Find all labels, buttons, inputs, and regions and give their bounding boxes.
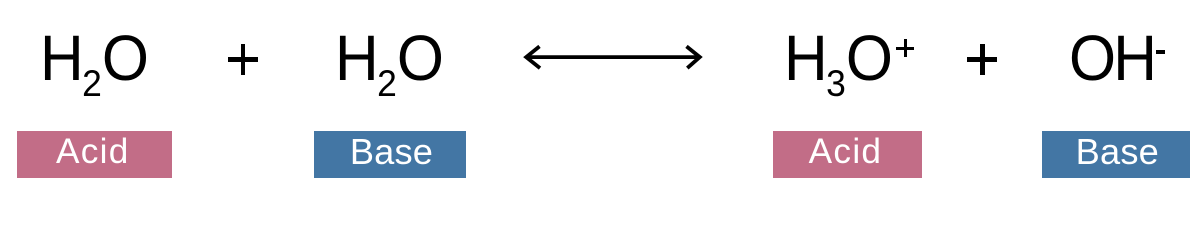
left arrowhead (526, 46, 540, 68)
superscript minus of OH- (1156, 50, 1165, 54)
right arrowhead (687, 46, 700, 68)
label Acid (under reactant 1) (17, 131, 173, 178)
plus sign 1 : horizontal bar (228, 57, 258, 62)
label Base (under product 2) (1042, 131, 1190, 178)
molecule H2O (reactant 2) (335, 26, 444, 90)
molecule H2O (reactant 1) (40, 26, 149, 90)
superscript plus of H3O+ : vertical bar (904, 39, 907, 58)
plus sign 2 : vertical bar (980, 44, 985, 75)
plus sign 2 : horizontal bar (967, 57, 997, 62)
equilibrium double arrow (515, 38, 711, 78)
arrow shaft (528, 55, 698, 59)
label Base (under reactant 2) (314, 131, 466, 178)
ion H3O+ (product 1) (784, 26, 893, 90)
ion OH- (product 2) (1069, 26, 1154, 90)
plus sign 1 : vertical bar (241, 44, 246, 75)
label Acid (under product 1) (773, 131, 922, 178)
superscript plus of H3O+ : horizontal bar (896, 47, 915, 50)
